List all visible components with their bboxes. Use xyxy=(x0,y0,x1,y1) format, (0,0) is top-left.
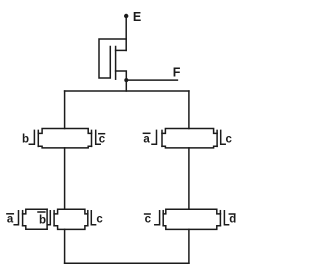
transistor a-bar channel xyxy=(161,130,163,146)
transistor c gate (bottom left) xyxy=(91,211,95,225)
wire loop 2 top (b-bar to c) xyxy=(54,209,88,214)
wire top rail xyxy=(65,90,189,92)
svg-text:d: d xyxy=(229,213,236,225)
transistor c-bar channel (bottom right) xyxy=(162,211,164,226)
node E xyxy=(124,14,128,18)
svg-text:b: b xyxy=(39,214,46,226)
transistor b-bar shared channel left / loop 1 right edge xyxy=(46,209,48,229)
wire parallel loop (a-bar, c) bottom xyxy=(162,146,217,148)
wire loop 1 bottom xyxy=(23,226,47,229)
svg-text:a: a xyxy=(7,213,14,225)
transistor b channel xyxy=(37,130,39,146)
transistor a-bar channel (bottom left) xyxy=(22,211,24,226)
svg-text:c: c xyxy=(99,133,106,145)
node F junction dot xyxy=(124,78,128,82)
wire left branch upper xyxy=(64,91,66,129)
wire parallel loop (a-bar, c) top xyxy=(162,129,217,134)
transistor b-bar gate xyxy=(47,211,50,225)
transistor Q1 (load) gate loop wire and gate bar xyxy=(99,39,126,78)
wire right branch middle xyxy=(188,148,190,209)
transistor c gate (middle right) xyxy=(221,130,226,144)
svg-text:c: c xyxy=(96,213,103,225)
transistor c channel (bottom left) xyxy=(87,211,89,226)
wire parallel loop (c-bar, d-bar) top xyxy=(163,209,220,214)
transistor a-bar gate xyxy=(152,130,157,144)
wire left branch middle xyxy=(64,148,66,209)
wire parallel loop (c-bar, d-bar) bottom xyxy=(163,226,220,230)
transistor d-bar channel xyxy=(219,211,221,226)
wire E down to load transistor xyxy=(125,17,127,50)
wire loop 1 top (a-bar to b-bar) xyxy=(23,209,47,214)
wire parallel loop (b, c-bar) top xyxy=(38,129,91,134)
svg-text:c: c xyxy=(226,133,233,145)
transistor c-bar channel xyxy=(91,130,93,146)
transistor Q1 drain stub xyxy=(116,49,127,51)
transistor c channel (middle right) xyxy=(216,130,218,146)
transistor a-bar gate (bottom left) xyxy=(14,211,18,225)
transistor Q1 channel bar xyxy=(115,47,117,80)
wire right branch lower xyxy=(188,229,190,263)
svg-text:c: c xyxy=(145,213,152,225)
wire parallel loop (b, c-bar) bottom xyxy=(38,146,91,148)
transistor c-bar gate (bottom right) xyxy=(155,211,160,225)
svg-text:a: a xyxy=(143,133,150,145)
transistor b gate xyxy=(29,130,34,144)
wire left branch lower xyxy=(64,229,66,263)
svg-text:b: b xyxy=(22,133,29,145)
svg-text:F: F xyxy=(173,65,181,79)
transistor b-bar channel right xyxy=(53,211,55,226)
transistor d-bar gate xyxy=(224,211,228,225)
wire right branch upper xyxy=(188,91,190,129)
svg-text:E: E xyxy=(133,10,141,24)
wire node F to the right xyxy=(126,79,177,81)
transistor Q1 source stub and wire down through node F xyxy=(116,71,127,91)
transistor c-bar gate xyxy=(96,130,101,144)
wire bottom rail xyxy=(65,262,189,264)
wire loop 2 bottom xyxy=(54,226,88,230)
